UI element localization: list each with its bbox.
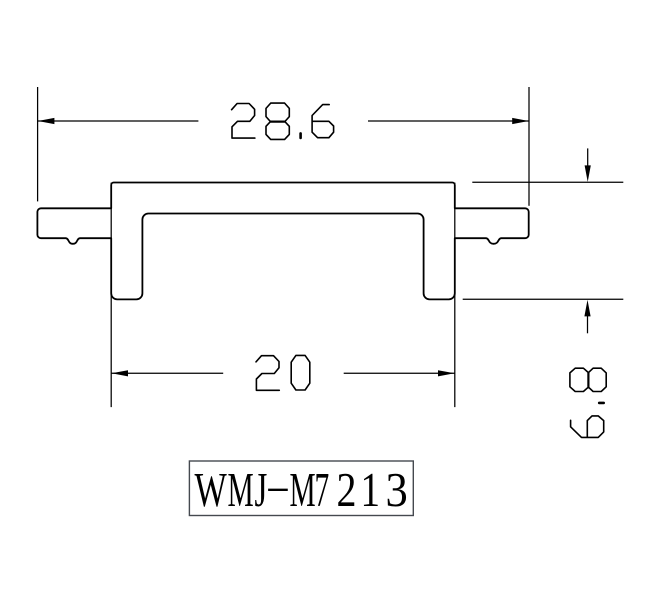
- dimension text 20 digit 0: [291, 355, 310, 390]
- profile outline: [37, 183, 528, 300]
- extension line right of 28.6: [528, 87, 530, 206]
- label box: [189, 461, 413, 516]
- dimension text 6.8 (rotated 90): [570, 368, 606, 437]
- arrowhead 6.8 bottom pointing up: [584, 300, 590, 317]
- arrowhead 20 right: [438, 370, 455, 376]
- svg-text:1: 1: [361, 464, 381, 517]
- arrowhead 28.6 left: [38, 118, 55, 124]
- dimension line 20 right segment: [344, 372, 455, 374]
- dimension text 20 digit 2: [256, 356, 279, 391]
- svg-text:M: M: [290, 464, 316, 517]
- dimension line 28.6 right segment: [368, 120, 529, 122]
- extension line right of 20: [454, 183, 456, 408]
- dimension text 28.6 digit 8: [266, 103, 289, 139]
- extension line top of 6.8: [472, 181, 623, 183]
- leader tail above top 6.8 arrow: [587, 148, 589, 168]
- arrowhead 20 left: [112, 370, 129, 376]
- dimension text 28.6 digit 2: [232, 104, 255, 139]
- svg-text:M: M: [228, 464, 254, 517]
- extension line left of 28.6: [37, 87, 39, 201]
- leader tail below bottom 6.8 arrow: [587, 313, 589, 333]
- dimension line 28.6 left segment: [38, 120, 198, 122]
- svg-text:3: 3: [386, 464, 408, 517]
- svg-text:W: W: [195, 464, 227, 517]
- arrowhead 28.6 right: [512, 118, 529, 124]
- label text WMJ-M7213: [195, 464, 408, 517]
- dimension text 28.6 digit 6: [312, 105, 334, 138]
- svg-text:2: 2: [337, 464, 357, 517]
- svg-text:−: −: [266, 464, 290, 517]
- svg-text:7: 7: [315, 464, 330, 517]
- dimension text 28.6 decimal point: [299, 133, 302, 138]
- dimension line 20 left segment: [112, 372, 224, 374]
- extension line bottom of 6.8: [463, 298, 624, 300]
- arrowhead 6.8 top pointing down: [585, 165, 591, 182]
- extension line left of 20: [110, 183, 112, 408]
